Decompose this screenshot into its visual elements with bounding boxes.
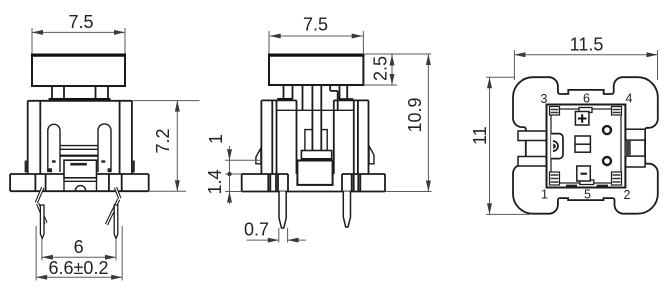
svg-text:4: 4 <box>626 92 633 106</box>
svg-text:3: 3 <box>541 92 548 106</box>
svg-text:6.6±0.2: 6.6±0.2 <box>49 258 109 278</box>
svg-text:6: 6 <box>583 92 590 106</box>
svg-text:7.5: 7.5 <box>303 15 328 35</box>
svg-text:2: 2 <box>624 188 631 202</box>
svg-text:5: 5 <box>584 188 591 202</box>
svg-text:1: 1 <box>206 134 226 144</box>
svg-text:7.5: 7.5 <box>68 12 93 32</box>
svg-text:0.7: 0.7 <box>244 220 269 240</box>
svg-text:7.2: 7.2 <box>153 128 173 153</box>
svg-text:6: 6 <box>74 237 84 257</box>
svg-text:11.5: 11.5 <box>570 34 604 54</box>
svg-text:2.5: 2.5 <box>371 56 391 81</box>
svg-text:1: 1 <box>541 188 548 202</box>
svg-text:1.4: 1.4 <box>205 169 225 194</box>
svg-text:10.9: 10.9 <box>405 97 425 132</box>
svg-text:11: 11 <box>470 126 490 145</box>
